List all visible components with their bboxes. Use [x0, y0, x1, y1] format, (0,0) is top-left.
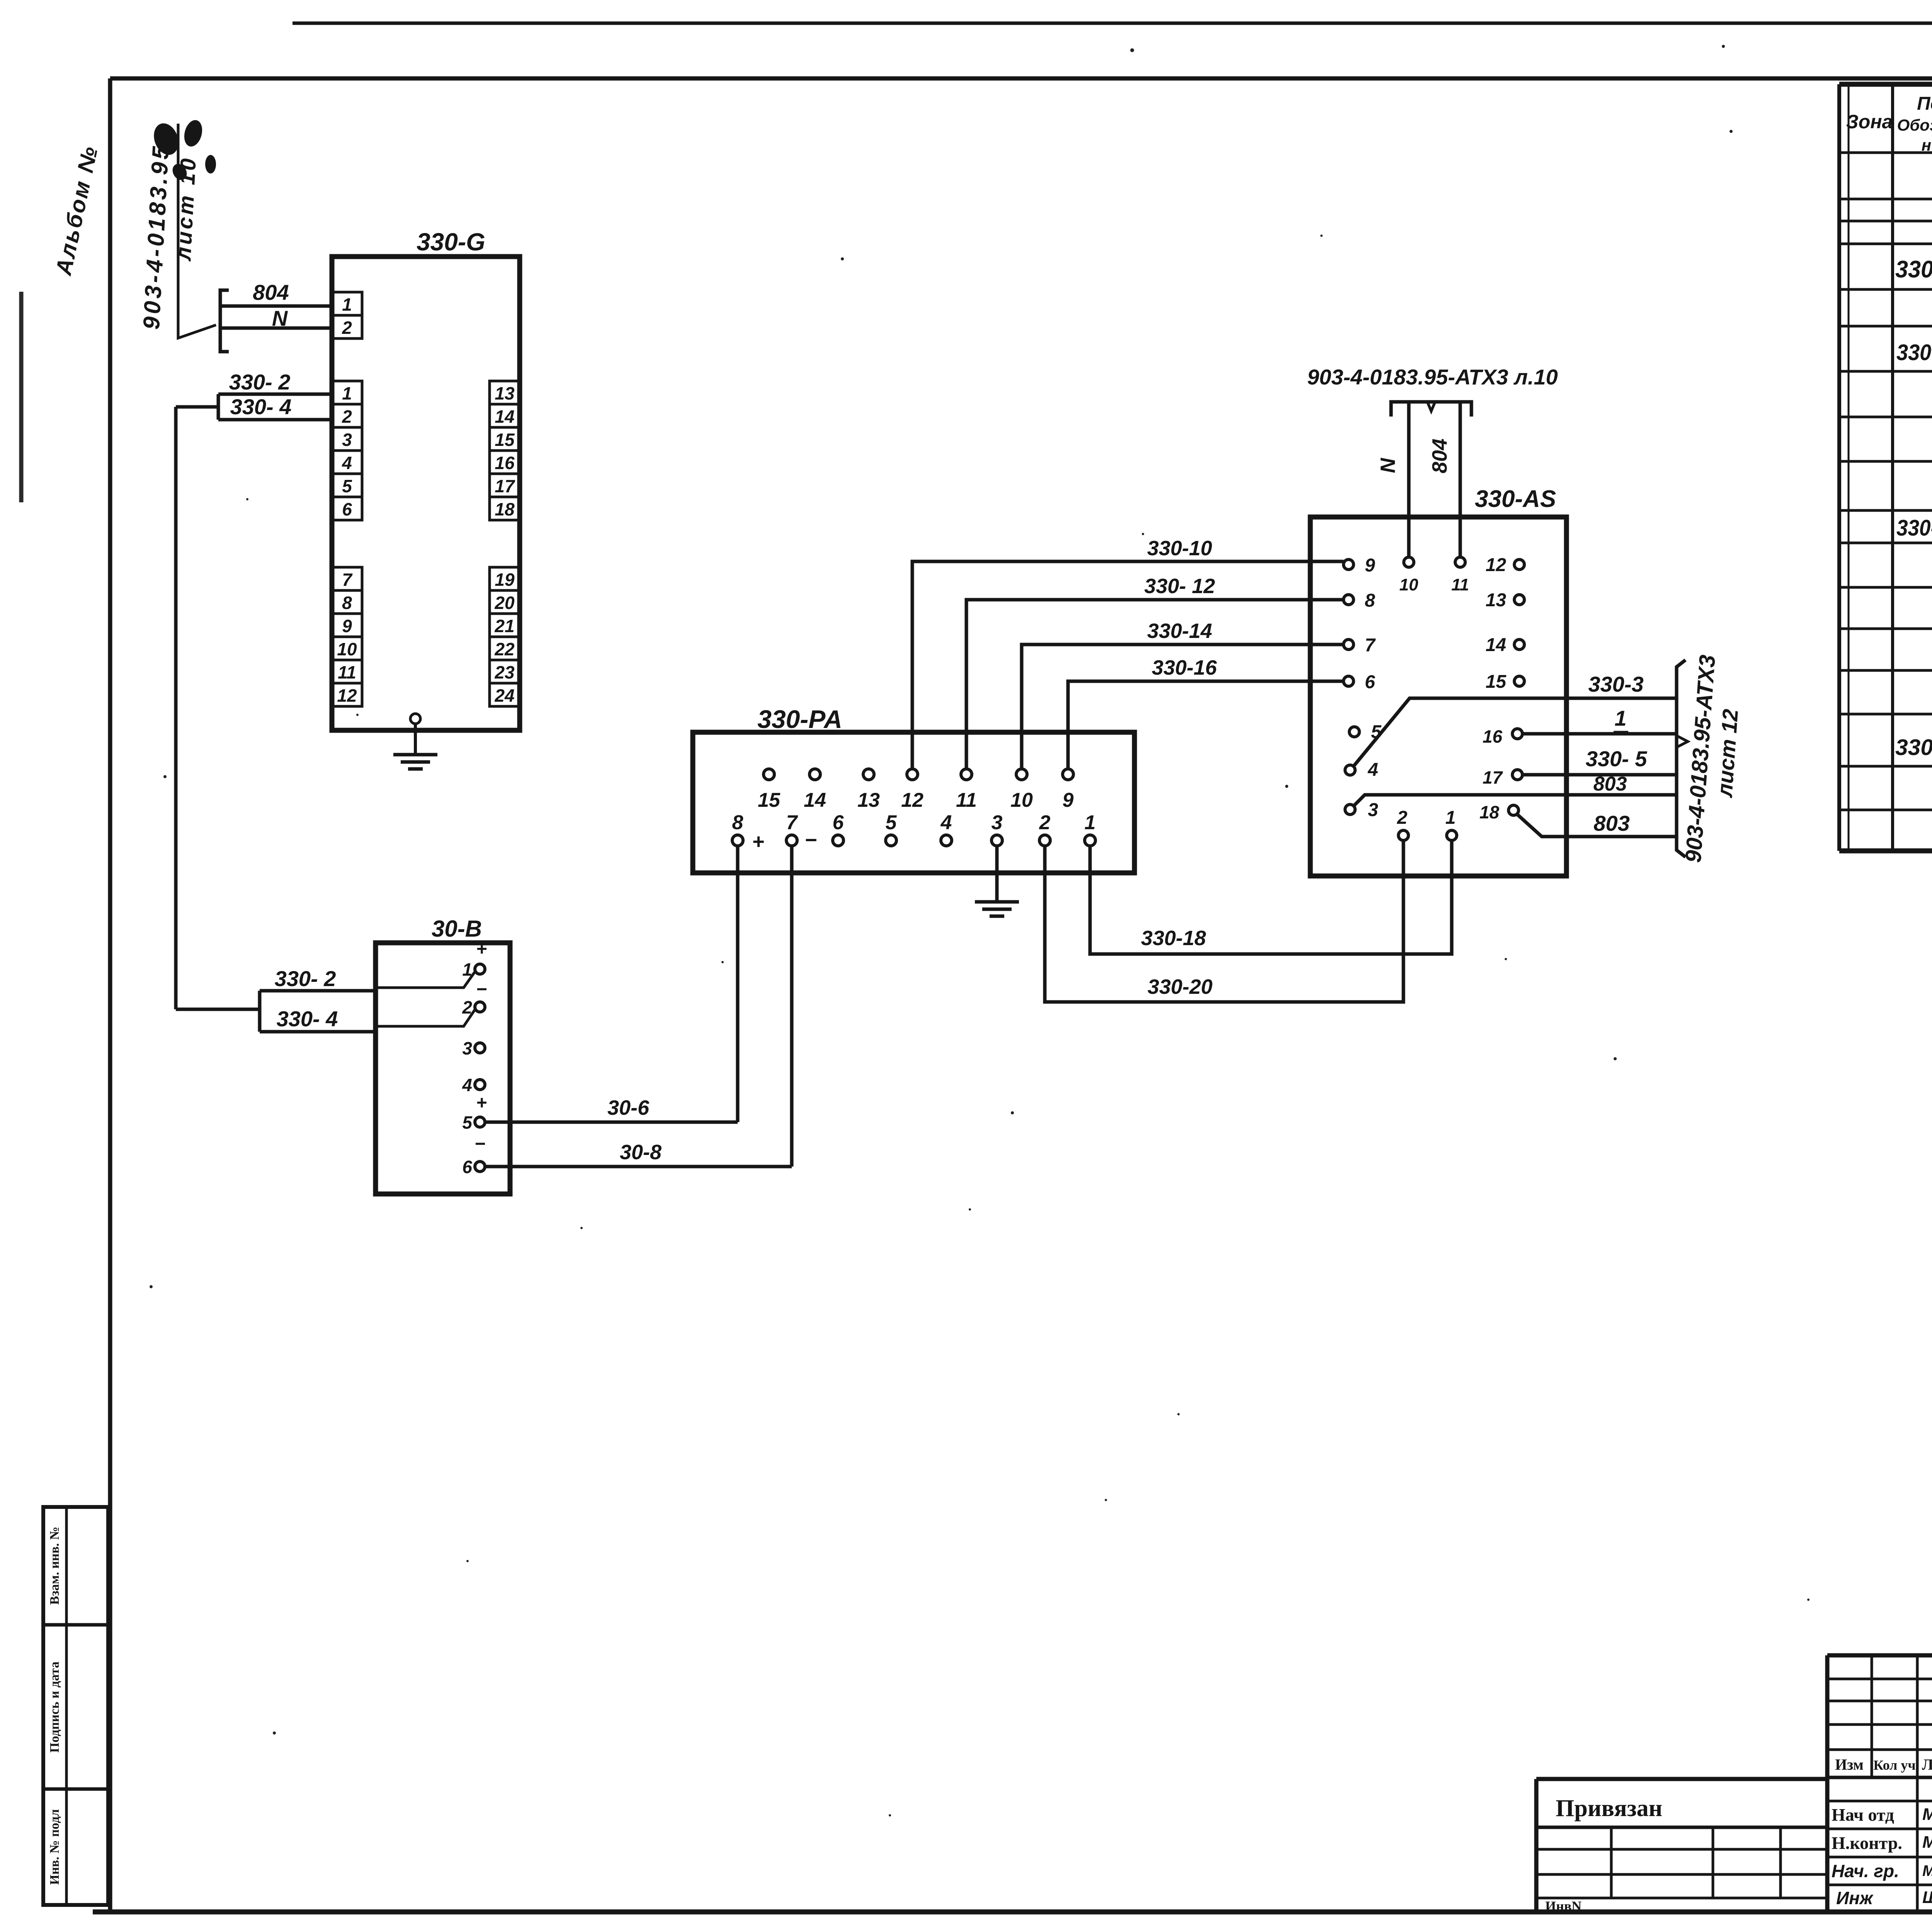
svg-text:30-6: 30-6: [607, 1096, 650, 1119]
svg-text:Привязан: Привязан: [1556, 1795, 1662, 1821]
svg-text:1: 1: [1614, 706, 1626, 730]
svg-text:330-20: 330-20: [1148, 975, 1213, 998]
svg-text:7: 7: [342, 570, 353, 590]
svg-text:330-G: 330-G: [1895, 256, 1932, 283]
wire into 30-B pin 1: [375, 972, 475, 988]
svg-text:+: +: [476, 1093, 487, 1113]
svg-text:3: 3: [992, 811, 1003, 834]
left attachment box Привязан: [1536, 1777, 1827, 1781]
svg-text:Зона: Зона: [1846, 111, 1893, 133]
svg-text:17: 17: [1483, 767, 1503, 787]
frame bottom border: [93, 1910, 1932, 1915]
svg-text:−: −: [476, 979, 487, 1000]
svg-text:4: 4: [1367, 760, 1378, 780]
svg-text:330-АS: 330-АS: [1896, 515, 1932, 541]
svg-text:20: 20: [494, 593, 515, 613]
svg-text:23: 23: [494, 662, 515, 682]
svg-text:1: 1: [342, 383, 352, 403]
left stamp box: [43, 1507, 108, 1905]
svg-text:+: +: [476, 939, 487, 959]
wire 330-10: [912, 561, 1344, 769]
svg-text:6: 6: [342, 499, 352, 519]
svg-text:7: 7: [1365, 635, 1376, 656]
svg-text:−: −: [804, 828, 817, 852]
label box 330-2 330-4 at 30-B: [260, 989, 375, 993]
svg-text:330-АS: 330-АS: [1475, 486, 1556, 512]
wire 30-6: [485, 1121, 738, 1124]
svg-text:3: 3: [1368, 800, 1378, 820]
svg-text:4: 4: [462, 1075, 472, 1095]
ink smudges: [150, 120, 182, 158]
svg-text:9: 9: [342, 616, 352, 636]
330-AS pin 17: [1512, 770, 1522, 780]
svg-text:2: 2: [1397, 808, 1408, 828]
wire group bracket: [220, 290, 229, 352]
svg-text:12: 12: [1486, 555, 1507, 575]
wire 330-18: [1090, 841, 1452, 954]
svg-text:804: 804: [253, 280, 289, 304]
svg-text:13: 13: [1486, 590, 1507, 611]
330-AS pin 4: [1345, 765, 1355, 775]
svg-text:Изм: Изм: [1835, 1756, 1864, 1773]
svg-text:Взам. инв. №: Взам. инв. №: [48, 1527, 62, 1605]
330-AS pin 16: [1512, 729, 1522, 739]
wire 330-16: [1068, 681, 1346, 769]
svg-text:16: 16: [1483, 726, 1503, 747]
wire N into pin 10: [1407, 402, 1411, 557]
svg-text:1: 1: [342, 294, 352, 315]
svg-text:18: 18: [1480, 802, 1500, 822]
svg-text:13: 13: [495, 383, 515, 403]
svg-text:5: 5: [462, 1112, 473, 1133]
left paper edge artifact: [19, 292, 24, 502]
330-G pins 7-12: [332, 567, 362, 590]
svg-text:8: 8: [1365, 590, 1375, 611]
330-PA bottom row pins 8..1: [732, 835, 743, 846]
svg-text:30-8: 30-8: [620, 1141, 662, 1164]
svg-text:1: 1: [1446, 808, 1456, 828]
330-G pins 13-18: [490, 381, 520, 404]
svg-text:8: 8: [732, 811, 743, 834]
title block outline: [1827, 1653, 1932, 1658]
svg-text:Кол уч: Кол уч: [1873, 1757, 1915, 1773]
330-PA top row pins 15..9: [764, 769, 774, 780]
svg-text:ИнвN: ИнвN: [1545, 1898, 1582, 1914]
svg-text:330-3: 330-3: [1588, 672, 1643, 696]
svg-text:15: 15: [758, 789, 781, 811]
svg-text:12: 12: [901, 789, 923, 811]
svg-text:330- 2: 330- 2: [275, 966, 336, 991]
svg-text:21: 21: [494, 616, 514, 636]
wire 30-6 riser: [736, 846, 740, 1122]
wire 804 into pin 11: [1459, 402, 1462, 557]
svg-text:10: 10: [1010, 789, 1033, 811]
330-AS top pins 10 11: [1404, 557, 1414, 567]
left riser junction into 30-B: [176, 1008, 260, 1011]
svg-text:Шалавекс: Шалавекс: [1922, 1888, 1932, 1907]
svg-text:−: −: [474, 1134, 485, 1154]
svg-text:13: 13: [857, 789, 880, 811]
svg-text:Инв. № подл: Инв. № подл: [48, 1809, 62, 1885]
svg-text:Поз.: Поз.: [1917, 94, 1932, 114]
svg-text:14: 14: [1486, 635, 1506, 655]
svg-text:330- 2: 330- 2: [229, 370, 291, 394]
svg-text:330-14: 330-14: [1147, 619, 1212, 643]
svg-text:15: 15: [495, 430, 515, 450]
wire into 30-B pin 2: [375, 1010, 475, 1026]
svg-text:Нач. гр.: Нач. гр.: [1832, 1861, 1899, 1881]
svg-text:8: 8: [342, 593, 352, 613]
svg-text:6: 6: [1365, 672, 1375, 692]
wire N: [220, 327, 333, 330]
svg-text:30-В: 30-В: [432, 916, 482, 942]
svg-text:330- 12: 330- 12: [1144, 575, 1215, 598]
svg-text:330-РА: 330-РА: [757, 705, 842, 733]
svg-text:16: 16: [495, 453, 515, 473]
330-PA ground symbol at pin 3: [995, 846, 999, 902]
scan speckles: [841, 257, 844, 260]
svg-text:3: 3: [462, 1038, 472, 1058]
transmitter block 30-B: [376, 943, 510, 1194]
svg-text:N: N: [272, 306, 288, 330]
sheet top edge line: [293, 22, 1932, 25]
label box edge: [217, 394, 220, 420]
svg-text:Митрофанова: Митрофанова: [1922, 1862, 1932, 1879]
330-AS right pins 12-15: [1514, 560, 1524, 570]
supply bracket above 330-AS: [1391, 402, 1471, 417]
left riser wire: [174, 407, 178, 1009]
svg-text:330-РА: 330-РА: [1896, 340, 1932, 365]
wire 804: [220, 304, 333, 308]
component table grid: [1839, 82, 1932, 87]
svg-text:Молчанов: Молчанов: [1922, 1805, 1932, 1824]
330-AS pin 5: [1349, 727, 1359, 737]
wire 803 from pin 18: [1517, 815, 1677, 837]
330-G pins 1-2 (supply): [332, 292, 362, 315]
svg-text:19: 19: [495, 570, 515, 590]
330-G pins 1-6: [332, 381, 362, 404]
svg-text:903-4-0183.95-АТХ3 л.10: 903-4-0183.95-АТХ3 л.10: [1307, 365, 1558, 389]
svg-text:10: 10: [1400, 575, 1418, 594]
svg-text:10: 10: [337, 639, 357, 659]
switch contact wire 330-3 from pin 4: [1354, 698, 1677, 766]
svg-text:803: 803: [1594, 773, 1627, 795]
svg-text:9: 9: [1063, 789, 1074, 811]
svg-text:ние: ние: [1922, 136, 1932, 154]
power supply block 330-G: [332, 257, 520, 730]
svg-text:Инж: Инж: [1836, 1888, 1874, 1908]
svg-text:4: 4: [940, 811, 952, 834]
svg-text:1: 1: [1085, 811, 1096, 834]
wire 330-4 to 330-G pin 2: [218, 418, 333, 422]
svg-text:11: 11: [338, 662, 356, 682]
svg-text:7: 7: [786, 811, 798, 834]
svg-text:11: 11: [1451, 575, 1469, 594]
ammeter block 330-PA: [693, 732, 1134, 873]
frame top border: [110, 77, 1932, 81]
wire junction to left riser: [176, 405, 218, 409]
330-AS pin 18: [1509, 805, 1519, 815]
wire 330-2 to 330-G pin 1: [218, 393, 333, 396]
wire 803 from pin 3: [1354, 795, 1677, 806]
svg-text:14: 14: [804, 789, 826, 811]
svg-text:2: 2: [342, 406, 352, 427]
330-AS bottom pins 2 1: [1398, 830, 1408, 840]
svg-text:Подпись и дата: Подпись и дата: [48, 1662, 62, 1753]
svg-text:2: 2: [1039, 811, 1051, 834]
svg-text:330-18: 330-18: [1141, 927, 1206, 950]
svg-text:330-В: 330-В: [1895, 735, 1932, 760]
cable bracket to sheet 12: [1677, 660, 1685, 857]
svg-text:9: 9: [1365, 555, 1375, 576]
svg-text:Молчанов: Молчанов: [1922, 1833, 1932, 1852]
leader line from doc reference to wires: [178, 124, 216, 338]
svg-text:803: 803: [1594, 811, 1629, 835]
svg-text:330- 5: 330- 5: [1586, 747, 1648, 771]
wire 330-14: [1022, 645, 1346, 769]
svg-text:6: 6: [462, 1157, 472, 1177]
svg-text:17: 17: [495, 476, 515, 496]
330-AS left pins 9 8 7 6: [1344, 560, 1354, 570]
330-G ground symbol: [410, 714, 420, 724]
three-position control block 330-AS: [1310, 517, 1566, 876]
svg-text:Нач отд: Нач отд: [1832, 1805, 1894, 1825]
330-G pins 19-24: [490, 567, 520, 590]
330-AS pin 3: [1345, 804, 1355, 815]
svg-text:11: 11: [956, 789, 977, 811]
svg-text:22: 22: [494, 639, 515, 659]
svg-text:330-10: 330-10: [1147, 537, 1212, 560]
svg-text:3: 3: [342, 430, 352, 450]
frame left border: [108, 78, 112, 1912]
wire 330-5 from pin 17: [1523, 773, 1677, 777]
svg-text:Н.контр.: Н.контр.: [1832, 1833, 1902, 1853]
svg-text:N: N: [1376, 458, 1400, 473]
svg-text:Обозначе: Обозначе: [1897, 116, 1932, 134]
svg-text:6: 6: [833, 811, 844, 834]
svg-text:4: 4: [342, 453, 352, 473]
svg-text:18: 18: [495, 499, 515, 519]
svg-text:2: 2: [342, 318, 352, 338]
wire 330-20: [1045, 841, 1403, 1002]
svg-text:330-16: 330-16: [1152, 656, 1217, 679]
svg-text:12: 12: [337, 685, 357, 706]
svg-text:+: +: [752, 830, 764, 853]
svg-text:330- 4: 330- 4: [277, 1007, 338, 1031]
svg-text:5: 5: [342, 476, 352, 496]
svg-text:Лист: Лист: [1922, 1756, 1932, 1773]
svg-text:15: 15: [1486, 672, 1507, 692]
svg-text:804: 804: [1428, 439, 1451, 473]
svg-text:330- 4: 330- 4: [230, 395, 292, 419]
svg-text:14: 14: [495, 406, 514, 427]
small revision grid: [1871, 1655, 1873, 1777]
svg-text:330-G: 330-G: [417, 228, 485, 256]
wire 330-12: [966, 600, 1345, 769]
svg-text:5: 5: [886, 811, 897, 834]
wire 1 from pin 16: [1522, 732, 1677, 736]
svg-text:24: 24: [494, 685, 514, 706]
30-B pins 1-6: [475, 964, 485, 974]
wire 30-8 riser: [790, 846, 794, 1167]
wire 30-8: [485, 1165, 792, 1168]
